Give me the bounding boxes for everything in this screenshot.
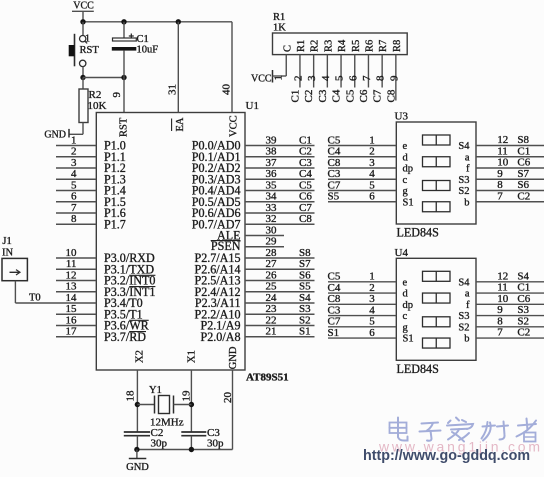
- wire U1 pin 30 (ALE): [245, 235, 284, 237]
- capacitor C3: [181, 432, 206, 450]
- svg-text:35: 35: [266, 179, 278, 191]
- svg-text:C3: C3: [328, 304, 341, 316]
- wire U3 pin 8 net S6: [476, 190, 544, 192]
- svg-text:31: 31: [166, 84, 178, 95]
- wire U4 pin 11 net C1: [476, 292, 544, 294]
- svg-text:GND: GND: [126, 462, 149, 472]
- LED segment block 4 (U3): [423, 202, 451, 212]
- svg-text:S1: S1: [403, 197, 414, 208]
- wire VCC pin 40 lead: [231, 22, 233, 113]
- node junction crystal right: [189, 402, 194, 407]
- svg-text:3: 3: [369, 157, 375, 169]
- wire U4 pin 2 (d) net C4: [328, 292, 396, 294]
- svg-text:LED84S: LED84S: [397, 226, 439, 240]
- svg-text:a: a: [465, 289, 470, 300]
- wire U1 pin 14 (P3.4/T0): [15, 302, 96, 304]
- svg-text:S7: S7: [517, 168, 529, 180]
- ground GND (bottom): [126, 450, 149, 474]
- svg-text:IN: IN: [2, 248, 13, 259]
- R1 pin 4 lead: [326, 55, 328, 88]
- svg-text:VCC: VCC: [251, 73, 272, 84]
- svg-text:38: 38: [266, 146, 278, 158]
- svg-text:S3: S3: [299, 303, 311, 315]
- svg-text:S3: S3: [458, 175, 469, 186]
- svg-text:28: 28: [266, 247, 278, 259]
- wire U1 pin 7 (P1.6): [56, 212, 96, 214]
- svg-text:c: c: [403, 311, 408, 322]
- svg-text:9: 9: [111, 92, 123, 98]
- svg-text:9: 9: [388, 75, 400, 81]
- svg-text:11: 11: [66, 258, 77, 270]
- svg-text:C4: C4: [331, 89, 343, 102]
- svg-text:EA: EA: [175, 117, 186, 131]
- svg-text:3: 3: [369, 293, 375, 305]
- svg-text:C7: C7: [328, 316, 341, 328]
- wire U3 pin 11 net C1: [476, 156, 544, 158]
- wire U4 pin 3 (dp) net C8: [328, 303, 396, 305]
- svg-text:4: 4: [320, 75, 332, 81]
- wire U1 pin 3 (P1.2): [56, 167, 96, 169]
- svg-text:C8: C8: [385, 89, 397, 102]
- svg-text:36: 36: [266, 168, 278, 180]
- svg-text:C5: C5: [344, 89, 356, 102]
- wire ground rail: [137, 449, 233, 451]
- svg-text:Y1: Y1: [149, 385, 162, 396]
- svg-text:30p: 30p: [207, 437, 224, 449]
- svg-text:9: 9: [497, 168, 503, 180]
- svg-text:2: 2: [292, 76, 304, 82]
- svg-text:14: 14: [66, 292, 78, 304]
- wire U1 pin 32 (P0.7/AD7) net C8: [245, 223, 315, 225]
- svg-text:S5: S5: [299, 281, 311, 293]
- svg-text:7: 7: [361, 75, 373, 81]
- svg-text:S8: S8: [299, 247, 311, 259]
- svg-text:8: 8: [71, 213, 77, 225]
- capacitor C2: [124, 432, 150, 450]
- wire U1 pin 21 (P2.0/A8) net S1: [245, 336, 315, 338]
- wire U1 pin 39 (P0.0/AD0) net C1: [245, 145, 315, 147]
- svg-text:f: f: [466, 300, 470, 311]
- svg-text:C6: C6: [517, 157, 530, 169]
- svg-text:LED84S: LED84S: [397, 362, 439, 376]
- crystal Y1: [137, 396, 191, 414]
- wire U4 pin 1 (e) net C5: [328, 281, 396, 283]
- svg-text:S3: S3: [517, 304, 529, 316]
- svg-text:S6: S6: [517, 179, 529, 191]
- svg-text:6: 6: [369, 191, 375, 203]
- R1 pin 1 lead: [285, 55, 287, 76]
- wire U1 pin 1 (P1.0): [56, 145, 96, 147]
- wire X1 pin 19 lead: [190, 370, 192, 432]
- wire U1 pin 11 (P3.1/TXD): [56, 268, 96, 270]
- svg-text:c: c: [403, 175, 408, 186]
- capacitor C1: [112, 22, 137, 78]
- svg-text:C3: C3: [328, 168, 341, 180]
- svg-text:http://www.go-gddq.com: http://www.go-gddq.com: [363, 448, 530, 464]
- svg-text:6: 6: [369, 327, 375, 339]
- svg-text:C6: C6: [358, 89, 370, 102]
- svg-text:9: 9: [497, 304, 503, 316]
- svg-text:RST: RST: [80, 45, 100, 56]
- svg-text:10: 10: [497, 293, 509, 305]
- svg-text:25: 25: [266, 281, 278, 293]
- svg-text:24: 24: [266, 292, 278, 304]
- svg-text:C6: C6: [517, 293, 530, 305]
- svg-text:5: 5: [369, 179, 375, 191]
- wire U1 pin 33 (P0.6/AD6) net C7: [245, 212, 315, 214]
- svg-text:C1: C1: [289, 90, 301, 103]
- svg-text:27: 27: [266, 258, 278, 270]
- node junction C1 top: [121, 19, 126, 24]
- resistor R2: [79, 78, 88, 123]
- svg-text:C4: C4: [299, 168, 312, 180]
- wire U1 pin 36 (P0.3/AD3) net C4: [245, 178, 315, 180]
- wire U3 pin 10 net C6: [476, 167, 544, 169]
- ground GND (R2): [44, 129, 69, 140]
- wire U4 pin 4 (c) net C3: [328, 315, 396, 317]
- wire U4 pin 10 net C6: [476, 303, 544, 305]
- node junction VCC/Q1: [80, 19, 85, 24]
- svg-text:1: 1: [369, 134, 375, 146]
- LED segment block 3 (U3): [423, 181, 451, 191]
- svg-text:e: e: [403, 277, 408, 288]
- svg-text:S3: S3: [458, 311, 469, 322]
- wire R2 bottom to GND: [69, 123, 83, 135]
- svg-text:10: 10: [66, 247, 78, 259]
- svg-text:C8: C8: [299, 213, 312, 225]
- svg-text:S2: S2: [299, 314, 311, 326]
- svg-text:R1: R1: [296, 40, 307, 52]
- svg-text:30: 30: [266, 224, 278, 236]
- svg-text:C5: C5: [299, 179, 312, 191]
- wire U4 pin 7 net C2: [476, 337, 544, 339]
- svg-text:C2: C2: [517, 190, 530, 202]
- wire U3 pin 4 (c) net C3: [328, 178, 396, 180]
- svg-text:32: 32: [266, 213, 277, 225]
- wire U1 pin 17 (P3.7/RD): [56, 336, 96, 338]
- wire RST pin 9 lead: [123, 78, 125, 113]
- svg-text:15: 15: [66, 303, 78, 315]
- wire VCC to R1 pin 1: [273, 75, 287, 77]
- svg-text:S8: S8: [517, 134, 529, 146]
- wire U1 pin 29 (PSEN): [245, 246, 284, 248]
- wire U1 pin 2 (P1.1): [56, 156, 96, 158]
- wire U1 pin 8 (P1.7): [56, 223, 96, 225]
- svg-text:7: 7: [71, 202, 77, 214]
- wire U4 pin 8 net S2: [476, 326, 544, 328]
- svg-text:23: 23: [266, 303, 278, 315]
- wire U3 pin 1 (e) net C5: [328, 145, 396, 147]
- svg-text:S1: S1: [299, 326, 311, 338]
- U1 pin name PSEN (overlined): [211, 239, 241, 253]
- svg-text:5: 5: [369, 316, 375, 328]
- svg-text:C5: C5: [328, 134, 341, 146]
- svg-text:e: e: [403, 141, 408, 152]
- wire U4 pin 12 net S4: [476, 281, 544, 283]
- svg-text:C7: C7: [372, 89, 384, 102]
- watermark chinese characters (hand-drawn strokes): [390, 418, 537, 442]
- svg-text:12: 12: [497, 270, 508, 282]
- node junction EA pull-up: [176, 19, 181, 24]
- R1 pin 2 lead: [299, 55, 301, 88]
- svg-text:22: 22: [266, 314, 277, 326]
- svg-text:2: 2: [369, 282, 375, 294]
- svg-text:S4: S4: [299, 292, 311, 304]
- svg-text:7: 7: [497, 190, 503, 202]
- svg-text:b: b: [464, 334, 469, 345]
- svg-text:33: 33: [266, 202, 278, 214]
- svg-text:10: 10: [497, 157, 509, 169]
- wire J1 to T0: [14, 281, 16, 303]
- svg-text:GND: GND: [44, 129, 66, 140]
- svg-text:26: 26: [266, 269, 278, 281]
- svg-text:6: 6: [71, 191, 77, 203]
- svg-text:C1: C1: [517, 145, 530, 157]
- svg-text:30p: 30p: [151, 437, 168, 449]
- R1 pin 3 lead: [313, 55, 315, 88]
- LED segment block 4 (U4): [423, 338, 451, 348]
- LED segment block 2 (U3): [423, 157, 451, 167]
- svg-text:11: 11: [497, 282, 508, 294]
- svg-text:29: 29: [266, 236, 278, 248]
- svg-text:S6: S6: [299, 269, 311, 281]
- svg-text:8: 8: [497, 179, 503, 191]
- svg-text:S2: S2: [458, 322, 469, 333]
- svg-text:5: 5: [334, 75, 346, 81]
- R1 pin 7 lead: [367, 55, 369, 88]
- wire U3 pin 7 net C2: [476, 201, 544, 203]
- svg-text:R5: R5: [351, 40, 362, 52]
- svg-text:S4: S4: [458, 141, 470, 152]
- svg-text:S1: S1: [403, 334, 414, 345]
- svg-text:4: 4: [369, 168, 375, 180]
- svg-text:C7: C7: [299, 202, 312, 214]
- svg-text:1: 1: [85, 34, 90, 45]
- power symbol VCC (R1): [251, 70, 273, 84]
- pushbutton Q1: [69, 34, 88, 67]
- svg-text:21: 21: [266, 326, 277, 338]
- svg-text:C3: C3: [317, 89, 329, 102]
- U1 internal label EA (with overline): [172, 117, 186, 131]
- svg-text:J1: J1: [2, 236, 11, 247]
- wire U1 pin 34 (P0.5/AD5) net C6: [245, 201, 315, 203]
- svg-text:34: 34: [266, 191, 278, 203]
- wire U1 pin 35 (P0.4/AD4) net C5: [245, 190, 315, 192]
- svg-text:R3: R3: [323, 40, 334, 52]
- wire Q1 top lead: [82, 22, 84, 36]
- svg-text:7: 7: [497, 327, 503, 339]
- wire X2 pin 18 lead: [136, 370, 138, 432]
- svg-text:X2: X2: [134, 350, 145, 363]
- svg-text:d: d: [403, 289, 409, 300]
- svg-text:VCC: VCC: [73, 0, 94, 11]
- svg-text:dp: dp: [403, 300, 414, 311]
- svg-text:C4: C4: [328, 282, 341, 294]
- svg-text:R2: R2: [310, 40, 321, 52]
- LED display U3 body: [396, 122, 476, 224]
- wire U3 pin 12 net S8: [476, 145, 544, 147]
- svg-text:S4: S4: [517, 270, 529, 282]
- svg-text:VCC: VCC: [229, 115, 240, 137]
- wire U1 pin 16 (P3.6/WR): [56, 325, 96, 327]
- svg-text:dp: dp: [403, 164, 414, 175]
- op-amp U1 AT89S51 body: [96, 113, 245, 371]
- LED display U4 body: [396, 258, 476, 360]
- connector J1 body: [2, 258, 27, 280]
- svg-text:S2: S2: [517, 315, 529, 327]
- wire U1 pin 24 (P2.3/A11) net S4: [245, 302, 315, 304]
- svg-text:T0: T0: [29, 293, 41, 304]
- svg-text:R7: R7: [378, 40, 389, 52]
- svg-text:1: 1: [369, 271, 375, 283]
- wire U3 pin 3 (dp) net C8: [328, 167, 396, 169]
- wire VCC symbol to top rail: [82, 11, 84, 21]
- wire EA pin 31 lead: [177, 22, 179, 113]
- svg-text:U1: U1: [246, 100, 259, 112]
- wire U1 pin 28 (P2.7/A15) net S8: [245, 257, 315, 259]
- node junction GND rail mid: [189, 447, 194, 452]
- wire Q1 bottom lead: [82, 67, 84, 78]
- LED segment block 3 (U4): [423, 317, 451, 327]
- svg-text:b: b: [464, 197, 469, 208]
- wire U1 pin 15 (P3.5/T1): [56, 313, 96, 315]
- wire Q1-C1 bottom link: [83, 77, 124, 79]
- svg-text:RST: RST: [119, 117, 130, 137]
- svg-text:C6: C6: [299, 191, 312, 203]
- svg-text:a: a: [465, 152, 470, 163]
- svg-text:C3: C3: [299, 157, 312, 169]
- svg-text:2: 2: [71, 146, 77, 158]
- svg-text:g: g: [403, 322, 409, 333]
- svg-text:3: 3: [306, 75, 318, 81]
- svg-text:AT89S51: AT89S51: [246, 372, 289, 384]
- svg-text:11: 11: [497, 145, 508, 157]
- svg-text:C: C: [282, 45, 293, 52]
- svg-text:C1: C1: [517, 282, 530, 294]
- node junction GND rail left: [134, 447, 139, 452]
- wire U4 pin 9 net S3: [476, 315, 544, 317]
- svg-text:1K: 1K: [273, 23, 286, 34]
- svg-text:R8: R8: [392, 40, 403, 52]
- svg-text:X1: X1: [187, 350, 198, 363]
- wire top power rail: [83, 21, 232, 23]
- wire U1 pin 26 (P2.5/A13) net S6: [245, 280, 315, 282]
- wire U1 pin 25 (P2.4/A12) net S5: [245, 291, 315, 293]
- svg-text:4: 4: [71, 168, 77, 180]
- svg-text:13: 13: [66, 281, 78, 293]
- R1 pin 5 lead: [340, 55, 342, 88]
- wire U1 pin 4 (P1.3): [56, 178, 96, 180]
- svg-text:S2: S2: [458, 186, 469, 197]
- svg-text:C2: C2: [299, 146, 312, 158]
- svg-text:C8: C8: [328, 293, 341, 305]
- node junction crystal left: [135, 402, 140, 407]
- svg-text:40: 40: [221, 84, 233, 96]
- svg-text:C7: C7: [328, 179, 341, 191]
- wire U1 pin 38 (P0.1/AD1) net C2: [245, 156, 315, 158]
- R1 pin 8 lead: [381, 55, 383, 88]
- svg-text:20: 20: [222, 392, 234, 404]
- svg-text:S1: S1: [328, 327, 340, 339]
- wire U4 pin 6 (S1) net S1: [328, 337, 396, 339]
- wire U3 pin 9 net S7: [476, 178, 544, 180]
- svg-text:R6: R6: [364, 40, 375, 52]
- svg-text:8: 8: [497, 315, 503, 327]
- wire U1 pin 5 (P1.4): [56, 190, 96, 192]
- wire U1 pin 27 (P2.6/A14) net S7: [245, 268, 315, 270]
- wire U1 pin 22 (P2.1/A9) net S2: [245, 325, 315, 327]
- R1 pin 6 lead: [354, 55, 356, 88]
- wire U1 pin 12 (P3.2/INT0): [56, 280, 96, 282]
- svg-text:17: 17: [66, 326, 78, 338]
- svg-text:S7: S7: [299, 258, 311, 270]
- svg-text:S4: S4: [458, 277, 470, 288]
- svg-text:U3: U3: [395, 111, 409, 123]
- wire U1 pin 37 (P0.2/AD2) net C3: [245, 167, 315, 169]
- svg-text:C8: C8: [328, 157, 341, 169]
- svg-text:f: f: [466, 164, 470, 175]
- svg-text:P1.7: P1.7: [104, 217, 126, 231]
- svg-text:3: 3: [71, 157, 77, 169]
- svg-text:C2: C2: [517, 327, 530, 339]
- R1 pin 9 lead: [395, 55, 397, 101]
- svg-text:12: 12: [66, 269, 77, 281]
- svg-text:10K: 10K: [88, 100, 107, 112]
- svg-text:2: 2: [369, 146, 375, 158]
- svg-text:16: 16: [66, 314, 78, 326]
- wire U1 pin 23 (P2.2/A10) net S3: [245, 313, 315, 315]
- wire U4 pin 5 (g) net C7: [328, 326, 396, 328]
- svg-text:37: 37: [266, 157, 278, 169]
- svg-text:1: 1: [71, 134, 77, 146]
- svg-text:R4: R4: [337, 39, 348, 52]
- svg-text:C4: C4: [328, 146, 341, 158]
- wire GND pin 20 lead: [232, 370, 234, 450]
- LED segment block 2 (U4): [423, 293, 451, 303]
- svg-text:10uF: 10uF: [137, 44, 159, 55]
- svg-text:C2: C2: [303, 90, 315, 103]
- resistor network R1 body: [273, 33, 408, 55]
- LED segment block 1 (U4): [423, 271, 451, 281]
- LED segment block 1 (U3): [423, 135, 451, 145]
- wire U1 pin 10 (P3.0/RXD): [56, 257, 96, 259]
- svg-text:18: 18: [125, 390, 137, 402]
- svg-text:P2.0/A8: P2.0/A8: [201, 330, 241, 344]
- svg-text:5: 5: [71, 179, 77, 191]
- svg-text:C1: C1: [299, 134, 312, 146]
- wire U1 pin 6 (P1.5): [56, 201, 96, 203]
- svg-text:6: 6: [347, 75, 359, 81]
- svg-text:39: 39: [266, 134, 278, 146]
- svg-text:12: 12: [497, 134, 508, 146]
- svg-text:8: 8: [375, 75, 387, 81]
- svg-text:R1: R1: [273, 12, 285, 23]
- svg-text:S5: S5: [328, 191, 340, 203]
- node junction C1 bottom: [121, 75, 126, 80]
- svg-text:C5: C5: [328, 271, 341, 283]
- wire U3 pin 6 (S1) net S5: [328, 201, 396, 203]
- node junction Q1/R2: [80, 75, 85, 80]
- svg-text:4: 4: [369, 304, 375, 316]
- svg-text:g: g: [403, 186, 409, 197]
- svg-text:U4: U4: [395, 247, 409, 259]
- svg-text:1: 1: [273, 75, 285, 81]
- svg-text:d: d: [403, 152, 409, 163]
- svg-text:GND: GND: [228, 346, 239, 369]
- wire U3 pin 5 (g) net C7: [328, 190, 396, 192]
- svg-text:19: 19: [181, 390, 193, 402]
- wire U3 pin 2 (d) net C4: [328, 156, 396, 158]
